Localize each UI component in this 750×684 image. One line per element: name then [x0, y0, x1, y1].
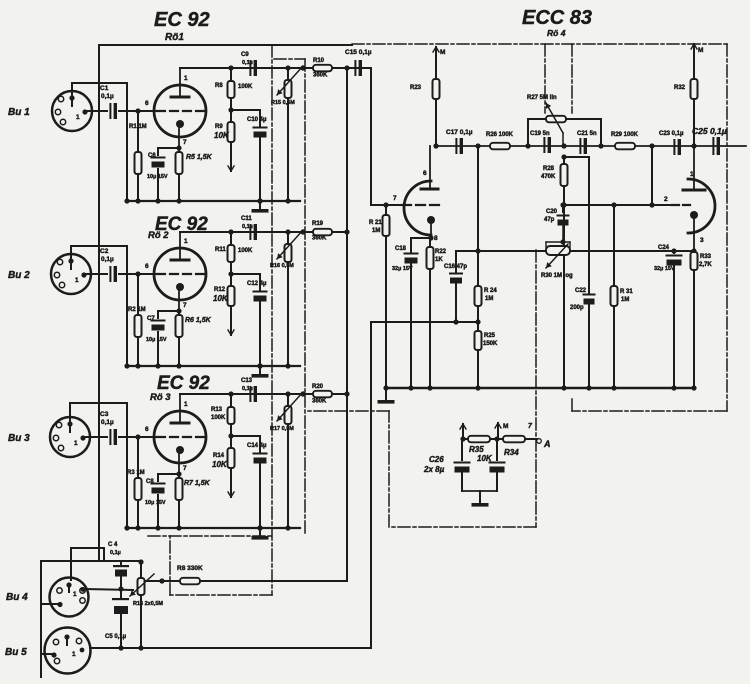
resistor R6 1.5K — [176, 311, 212, 369]
title EC 92 stage 2 — [148, 214, 208, 241]
resistor R11 100K — [215, 229, 253, 274]
svg-text:R13: R13 — [211, 407, 223, 413]
svg-text:R11: R11 — [215, 247, 226, 253]
screen box right side ECC83 — [572, 44, 727, 411]
node cathode V3 — [176, 471, 181, 476]
wire anode row ECC83 — [436, 145, 746, 147]
wire Bu2 pin1 to grid — [85, 271, 155, 276]
svg-text:10K: 10K — [214, 131, 230, 140]
wire Bu3 ground pin to bus — [70, 403, 130, 531]
svg-text:3: 3 — [700, 237, 704, 244]
node stage3 output joins — [344, 391, 349, 396]
resistor R23 — [410, 61, 440, 146]
resistor R20 360K — [312, 384, 332, 405]
capacitor C10 4µ — [231, 110, 268, 204]
ground output filter — [472, 491, 489, 507]
svg-text:1: 1 — [184, 401, 188, 408]
svg-text:6: 6 — [423, 170, 427, 177]
svg-text:10µ 15V: 10µ 15V — [147, 174, 168, 180]
svg-text:R9: R9 — [215, 124, 223, 130]
svg-text:2,7K: 2,7K — [699, 262, 712, 268]
shield box around input stages — [99, 45, 352, 561]
svg-text:10µ 15V: 10µ 15V — [146, 337, 167, 343]
label wire 7 — [528, 423, 533, 430]
wire shield left drop — [41, 561, 58, 677]
svg-text:ECC 83: ECC 83 — [522, 7, 592, 29]
svg-text:Rö1: Rö1 — [165, 32, 184, 43]
svg-text:R25: R25 — [484, 333, 496, 339]
svg-text:R12: R12 — [214, 287, 226, 293]
svg-text:1: 1 — [73, 591, 77, 598]
svg-text:0,1µ: 0,1µ — [242, 60, 253, 66]
svg-text:360K: 360K — [312, 236, 327, 242]
svg-text:2x 8µ: 2x 8µ — [423, 465, 445, 474]
svg-text:R32: R32 — [674, 85, 686, 91]
svg-text:1: 1 — [76, 114, 80, 121]
svg-text:Bu 2: Bu 2 — [8, 270, 30, 281]
wire Bu1 pin1 to grid — [86, 108, 155, 113]
wire anode row stage 2 — [180, 231, 347, 233]
pot R30 1M log — [541, 239, 573, 279]
svg-text:Bu 5: Bu 5 — [5, 647, 27, 658]
svg-text:C20: C20 — [546, 209, 558, 215]
resistor R1 1M — [129, 111, 147, 204]
svg-text:C24: C24 — [658, 245, 670, 251]
svg-text:200p: 200p — [570, 305, 584, 311]
capacitor C7 10µ — [146, 311, 179, 369]
svg-text:R20: R20 — [312, 384, 324, 390]
capacitor C6 10µ — [147, 148, 179, 204]
svg-text:R23: R23 — [410, 85, 422, 91]
svg-text:R14: R14 — [213, 453, 225, 459]
wire shield rail — [41, 560, 141, 562]
resistor R35 10K — [468, 436, 493, 463]
svg-text:C26: C26 — [429, 455, 444, 464]
svg-text:Bu 3: Bu 3 — [8, 433, 30, 444]
wire anode row stage 3 — [180, 393, 347, 395]
svg-text:Rö 4: Rö 4 — [547, 28, 566, 38]
svg-text:C7: C7 — [147, 316, 155, 322]
ground stage 2 — [252, 363, 269, 377]
svg-text:R7 1,5K: R7 1,5K — [184, 480, 211, 487]
svg-text:C5 0,1µ: C5 0,1µ — [105, 634, 127, 640]
wire anode row stage 1 — [180, 67, 362, 69]
screen line top of ECC83 section — [352, 43, 727, 45]
svg-text:0,1µ: 0,1µ — [101, 93, 114, 100]
svg-text:R16 0,5M: R16 0,5M — [270, 263, 294, 269]
svg-text:1: 1 — [690, 171, 694, 178]
wire Bu2 ground pin to bus — [71, 246, 130, 369]
wire shield jumper over Bu4 — [71, 548, 104, 580]
capacitor C22 200p — [570, 288, 596, 391]
ground ECC83 — [378, 388, 395, 404]
svg-text:10µ 15V: 10µ 15V — [145, 500, 166, 506]
svg-text:M: M — [440, 49, 445, 56]
svg-text:R1 1M: R1 1M — [129, 124, 147, 130]
node cathode V1 — [176, 145, 181, 150]
label Bu 4 — [6, 592, 28, 603]
screen box around output filter — [306, 250, 536, 527]
svg-text:1K: 1K — [435, 257, 443, 263]
resistor R13 100K — [211, 391, 235, 436]
svg-text:0,1µ: 0,1µ — [242, 224, 253, 230]
svg-text:C3: C3 — [100, 411, 109, 418]
resistor R26 100K — [486, 132, 514, 149]
wire Bu5 to feedback line — [91, 647, 371, 649]
wire cathode V4b row — [671, 248, 696, 253]
resistor R34 — [503, 436, 525, 457]
wire output row — [460, 436, 537, 441]
wire Bu1 ground pin to bus — [72, 83, 130, 204]
resistor R21 1M — [369, 202, 390, 390]
ground stage 3 — [252, 525, 269, 539]
ground stage 1 — [252, 198, 269, 212]
svg-text:R29 100K: R29 100K — [611, 132, 639, 138]
svg-text:1M: 1M — [372, 228, 380, 234]
svg-text:R33: R33 — [700, 254, 712, 260]
resistor R5 1.5K — [176, 148, 213, 204]
wire wiper to C22 — [564, 157, 589, 293]
resistor R10 360K — [313, 58, 332, 79]
resistor R28 470K — [541, 157, 568, 391]
node stage2 output joins — [344, 229, 349, 234]
svg-text:R22: R22 — [435, 249, 447, 255]
svg-text:7: 7 — [183, 139, 187, 146]
svg-text:R16 2x0,5M: R16 2x0,5M — [133, 601, 163, 607]
capacitor C24 32µ — [654, 245, 683, 391]
svg-text:C2: C2 — [100, 248, 109, 255]
svg-text:Bu 4: Bu 4 — [6, 592, 28, 603]
svg-text:C15 0,1µ: C15 0,1µ — [345, 49, 372, 56]
potentiometer R15 0.5M — [271, 65, 306, 203]
capacitor C21 5n — [577, 131, 597, 154]
potentiometer R16 0.5M — [270, 229, 306, 368]
wire grid row V4b — [560, 202, 672, 207]
resistor R29 100K — [611, 132, 639, 149]
svg-text:R8 330K: R8 330K — [177, 565, 203, 572]
svg-text:R8: R8 — [215, 83, 223, 89]
wire R24 column — [477, 146, 479, 286]
svg-text:C9: C9 — [241, 52, 249, 58]
capacitor C18 32µ — [392, 235, 434, 390]
svg-text:R17 0,5M: R17 0,5M — [270, 426, 294, 432]
wire NFB to record switch — [371, 322, 456, 647]
wire Bu3 pin1 to grid — [84, 434, 155, 439]
wire mixing bus down to record switch — [344, 65, 349, 581]
svg-text:47p: 47p — [544, 217, 555, 223]
svg-text:C10 4µ: C10 4µ — [247, 117, 267, 123]
triode EC92 V3 — [145, 394, 206, 474]
svg-text:0,1µ: 0,1µ — [101, 256, 114, 263]
capacitor C20 47p — [544, 205, 570, 242]
svg-text:1M: 1M — [621, 297, 629, 303]
svg-text:C17 0,1µ: C17 0,1µ — [446, 129, 473, 136]
node A output — [537, 439, 551, 449]
title EC 92 stage 3 — [150, 373, 210, 403]
node anode V4b — [691, 143, 696, 148]
svg-text:0,1µ: 0,1µ — [101, 419, 114, 426]
svg-text:R3 1M: R3 1M — [127, 470, 145, 476]
capacitor C3 — [100, 411, 117, 445]
svg-text:100K: 100K — [238, 248, 253, 254]
svg-text:1: 1 — [74, 440, 78, 447]
svg-text:0,1µ: 0,1µ — [242, 386, 253, 392]
screen box around input level pots — [274, 59, 305, 533]
svg-text:C23 0,1µ: C23 0,1µ — [659, 131, 684, 137]
svg-text:R30 1M log: R30 1M log — [541, 273, 573, 279]
node grid V4b takeoff — [649, 143, 654, 148]
svg-text:6: 6 — [145, 263, 149, 270]
node NFB junction top — [475, 143, 480, 148]
svg-text:10K: 10K — [212, 460, 228, 469]
capacitor C13 0.1µ — [241, 378, 257, 402]
resistor R24 1M — [475, 286, 498, 306]
svg-text:470K: 470K — [541, 174, 556, 180]
resistor R22 1K — [427, 238, 447, 391]
svg-text:150K: 150K — [483, 341, 498, 347]
svg-text:R35: R35 — [469, 445, 484, 454]
svg-text:7: 7 — [183, 302, 187, 309]
svg-text:M: M — [503, 423, 508, 430]
socket Bu3 — [50, 417, 90, 457]
resistor R8 330K — [145, 565, 347, 584]
svg-text:6: 6 — [145, 100, 149, 107]
svg-text:C6: C6 — [148, 153, 156, 159]
svg-text:R5 1,5K: R5 1,5K — [186, 154, 213, 161]
capacitor C12 4µ — [231, 274, 268, 369]
pot R27 5M lin — [525, 95, 601, 149]
svg-text:EC 92: EC 92 — [157, 373, 210, 394]
svg-text:C 4: C 4 — [108, 542, 118, 548]
svg-text:100K: 100K — [238, 84, 253, 90]
resistor R33 2.7K — [691, 252, 713, 391]
svg-text:R34: R34 — [504, 448, 519, 457]
svg-text:0,1µ: 0,1µ — [110, 550, 121, 556]
svg-text:6: 6 — [145, 426, 149, 433]
svg-text:360K: 360K — [313, 73, 328, 79]
wire ground bus stage 3 — [127, 527, 300, 529]
wire ground bus stage 1 — [127, 200, 300, 202]
svg-text:C19 5n: C19 5n — [530, 131, 550, 137]
wire grid V4a — [371, 204, 444, 206]
capacitor C8 10µ — [145, 474, 179, 531]
resistor R7 1.5K — [176, 474, 211, 531]
svg-text:C22: C22 — [575, 288, 587, 294]
wire feedback row — [456, 250, 674, 252]
svg-text:7: 7 — [393, 195, 397, 202]
svg-text:R10: R10 — [313, 58, 325, 64]
wire ground bus stage 2 — [127, 365, 300, 367]
supply arrow M left — [433, 47, 445, 61]
resistor R14 10K — [212, 436, 235, 497]
socket Bu5 — [45, 628, 91, 674]
svg-text:C25 0,1µ: C25 0,1µ — [692, 126, 727, 136]
svg-text:10K: 10K — [213, 294, 229, 303]
node junction R13/R14 — [228, 433, 233, 438]
screen stubs at R27 — [545, 44, 572, 113]
svg-text:R19: R19 — [312, 221, 324, 227]
capacitor C14 4µ — [231, 436, 268, 531]
title ECC 83 — [522, 7, 592, 38]
svg-text:M: M — [698, 47, 703, 54]
svg-text:1: 1 — [75, 277, 79, 284]
svg-text:R 21: R 21 — [369, 220, 382, 226]
svg-text:C18: C18 — [395, 246, 407, 252]
node cathode V2 — [176, 308, 181, 313]
resistor R3 1M — [127, 437, 145, 531]
resistor R2 1M — [128, 274, 146, 369]
svg-text:Rö 3: Rö 3 — [150, 392, 171, 403]
pot R16 2x0.5M — [130, 559, 163, 650]
node C16 tap — [475, 248, 480, 253]
label Bu1 — [8, 107, 30, 118]
capacitor C23 0.1µ — [659, 131, 684, 155]
resistor R25 150K — [475, 306, 499, 391]
svg-text:1: 1 — [184, 75, 188, 82]
triode EC92 V2 — [145, 232, 206, 311]
capacitor C5 0.1µ — [105, 589, 129, 651]
capacitor C17 0.1µ — [446, 129, 473, 154]
triode ECC83 b — [664, 146, 715, 251]
label Bu 5 — [5, 647, 27, 658]
svg-text:C13: C13 — [241, 378, 253, 384]
svg-text:32µ 15V: 32µ 15V — [654, 266, 675, 272]
supply arrow M right — [691, 44, 703, 58]
wire Bu4 signal to pot wiper — [85, 586, 133, 591]
svg-text:360K: 360K — [312, 399, 327, 405]
node R24/R25 — [456, 319, 481, 324]
socket Bu1 — [52, 91, 92, 131]
svg-text:1: 1 — [72, 651, 76, 658]
node anode V4a — [433, 143, 438, 148]
node after C21 — [598, 143, 603, 148]
svg-text:8: 8 — [434, 235, 438, 242]
capacitor C9 0.1µ — [241, 52, 257, 76]
capacitor C2 — [100, 248, 117, 282]
svg-text:Bu 1: Bu 1 — [8, 107, 30, 118]
resistor R32 — [674, 58, 698, 146]
wire stage1 output down to ECC grid — [362, 68, 371, 205]
capacitor C26 2x8µ — [423, 439, 506, 491]
resistor R8 100K — [215, 65, 253, 110]
triode EC92 V1 — [145, 68, 206, 148]
supply arrow output M — [495, 423, 508, 439]
resistor R19 360K — [312, 221, 332, 242]
svg-text:R6 1,5K: R6 1,5K — [185, 317, 212, 324]
capacitor C16 47p — [444, 251, 478, 325]
svg-text:7: 7 — [183, 465, 187, 472]
svg-text:R27 5M lin: R27 5M lin — [527, 95, 557, 101]
triode ECC83 a — [393, 146, 438, 242]
svg-text:Rö 2: Rö 2 — [148, 230, 169, 241]
socket Bu2 — [51, 254, 91, 294]
svg-text:A: A — [543, 439, 551, 449]
svg-text:C21 5n: C21 5n — [577, 131, 597, 137]
wire ECC83 ground bus — [386, 387, 694, 390]
node wiper R27 — [561, 143, 566, 159]
capacitor C1 — [100, 85, 117, 119]
resistor R9 10K — [214, 110, 235, 171]
socket Bu4 — [50, 578, 89, 617]
resistor R31 1M — [611, 205, 634, 391]
svg-text:C8: C8 — [146, 479, 154, 485]
svg-text:R15 0,5M: R15 0,5M — [271, 100, 295, 106]
svg-text:R2 1M: R2 1M — [128, 307, 146, 313]
label Bu3 — [8, 433, 30, 444]
node junction R8/R9 — [228, 107, 233, 112]
svg-text:EC 92: EC 92 — [154, 9, 210, 31]
svg-text:C14 4µ: C14 4µ — [247, 443, 267, 449]
label Bu2 — [8, 270, 30, 281]
capacitor C15 0.1µ — [345, 49, 372, 76]
svg-text:C11: C11 — [241, 216, 252, 222]
svg-text:C12 4µ: C12 4µ — [247, 281, 267, 287]
svg-text:32µ 15V: 32µ 15V — [392, 266, 413, 272]
capacitor C4 0.1µ — [108, 542, 129, 588]
svg-text:1: 1 — [184, 238, 188, 245]
supply arrow output left — [460, 424, 466, 439]
svg-text:R28: R28 — [543, 166, 555, 172]
node junction R11/R12 — [228, 271, 233, 276]
svg-text:1M: 1M — [485, 296, 493, 302]
screen partition (dash-dot) centre — [148, 45, 272, 595]
svg-text:C16 47p: C16 47p — [444, 264, 467, 270]
svg-text:R 24: R 24 — [484, 288, 497, 294]
svg-text:R26 100K: R26 100K — [486, 132, 514, 138]
svg-text:C1: C1 — [100, 85, 109, 92]
svg-text:100K: 100K — [211, 415, 226, 421]
svg-text:2: 2 — [664, 196, 668, 203]
capacitor C19 5n — [530, 131, 551, 153]
svg-text:R 31: R 31 — [620, 289, 633, 295]
title EC 92 stage 1 — [154, 9, 210, 43]
capacitor C25 0.1µ — [692, 126, 727, 155]
capacitor C11 0.1µ — [241, 216, 257, 240]
potentiometer R17 0.5M — [270, 391, 306, 530]
resistor R12 10K — [213, 274, 235, 335]
wire grid V4b feed — [649, 146, 654, 208]
